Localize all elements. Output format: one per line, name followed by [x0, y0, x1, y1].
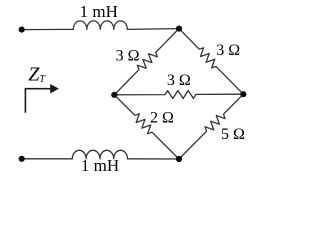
svg-text:3 Ω: 3 Ω: [167, 72, 191, 89]
node R (right mid junction): [240, 91, 246, 97]
svg-text:3 Ω: 3 Ω: [216, 42, 240, 59]
svg-text:1 mH: 1 mH: [81, 156, 119, 175]
impedance arrow Z_T: [25, 89, 51, 113]
svg-text:5 Ω: 5 Ω: [221, 126, 245, 143]
resistor R4 2 ohm (bottom-left diagonal): [114, 95, 179, 159]
node B (bottom junction): [176, 156, 182, 162]
resistor R5 5 ohm (bottom-right diagonal): [179, 94, 243, 159]
inductor L2 1 mH (bottom): [72, 150, 127, 159]
resistor R2 3 ohm (top-right diagonal): [179, 29, 243, 95]
terminal b (bottom-left): [19, 156, 25, 162]
resistor R3 3 ohm (middle horizontal): [114, 91, 243, 99]
node T (top junction): [176, 26, 182, 32]
terminal a (top-left): [19, 27, 25, 33]
svg-text:3 Ω: 3 Ω: [116, 48, 140, 65]
wire top-left lead: [22, 28, 74, 30]
node L (left mid junction): [111, 92, 117, 98]
svg-text:1 mH: 1 mH: [80, 2, 118, 21]
resistor R1 3 ohm (top-left diagonal): [114, 29, 179, 95]
wire bottom-left lead: [22, 158, 73, 160]
inductor L1 1 mH (top): [73, 21, 127, 30]
wire top-right lead: [127, 28, 179, 31]
wire bottom-right lead: [128, 158, 180, 160]
svg-text:2 Ω: 2 Ω: [150, 110, 174, 127]
